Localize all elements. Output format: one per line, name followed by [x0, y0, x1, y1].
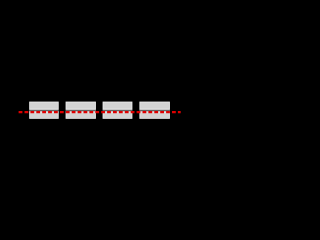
resistor R2 (IEC rectangle body, series element 2): [66, 102, 96, 118]
resistor R3 (IEC rectangle body, series element 3): [103, 102, 132, 118]
wire (horizontal conductor running through all four component bodies): [19, 110, 181, 112]
node axis (red dashed cut/symmetry line across the series chain): [19, 111, 181, 113]
resistor R4 (IEC rectangle body, series element 4): [140, 102, 170, 118]
resistor R1 (IEC rectangle body, series element 1): [30, 102, 59, 118]
